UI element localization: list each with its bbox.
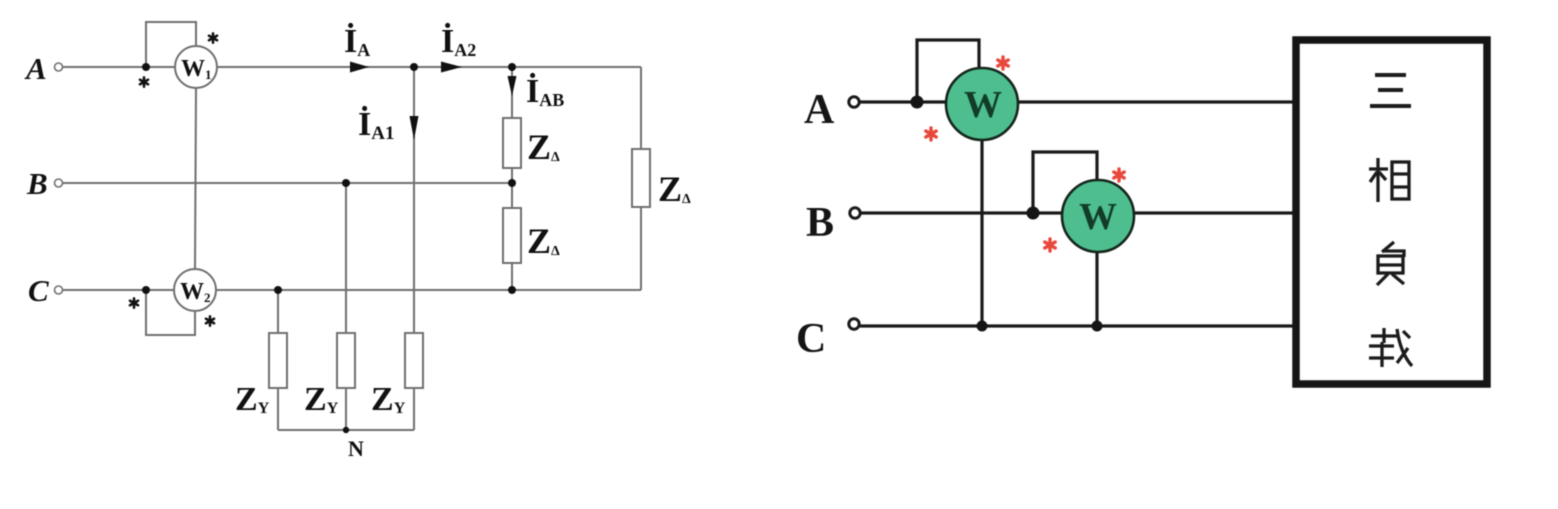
svg-text:B: B [806,200,834,246]
svg-text:W: W [1079,196,1117,238]
svg-text:N: N [348,436,364,461]
svg-text:İA: İA [344,22,370,60]
svg-text:ZΔ: ZΔ [658,169,691,209]
svg-text:ZY: ZY [371,381,406,418]
svg-text:B: B [26,166,48,201]
svg-text:ZY: ZY [304,381,339,418]
svg-text:C: C [28,273,49,308]
svg-text:W: W [964,84,1002,126]
svg-text:ZΔ: ZΔ [527,221,560,261]
svg-text:C: C [796,316,826,362]
svg-text:A: A [804,87,835,133]
svg-text:İA1: İA1 [358,105,394,144]
svg-text:ZY: ZY [235,381,270,418]
svg-text:A: A [24,51,47,86]
svg-text:ZΔ: ZΔ [527,127,560,167]
svg-text:İAB: İAB [526,72,564,110]
svg-text:İA2: İA2 [441,22,476,60]
